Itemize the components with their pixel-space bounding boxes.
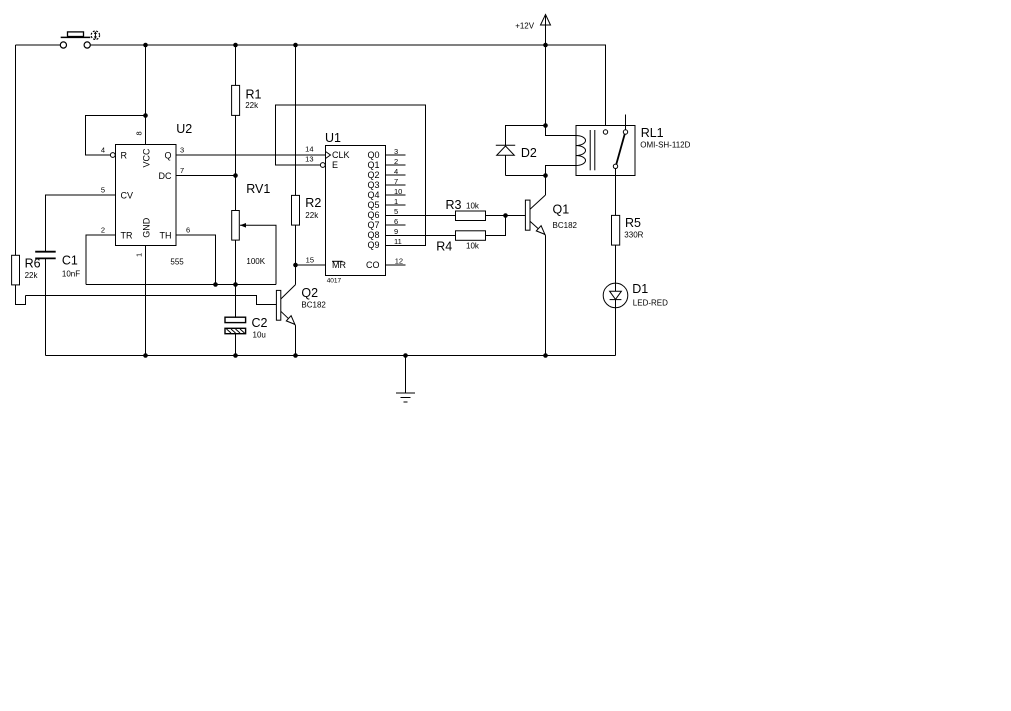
- wire U2 reset loop to VCC node: [86, 116, 146, 156]
- transistor Q1: [525, 176, 577, 356]
- svg-text:22k: 22k: [25, 271, 39, 280]
- svg-text:4: 4: [394, 167, 398, 176]
- svg-text:D1: D1: [632, 282, 648, 296]
- svg-text:Q2: Q2: [367, 170, 379, 180]
- svg-text:6: 6: [394, 217, 398, 226]
- wire relay coil bottom to Q1 collector: [546, 166, 577, 194]
- wire R6 net to Q2 base: [26, 296, 277, 305]
- resistor R2: [292, 195, 322, 225]
- transistor Q2: [276, 265, 326, 356]
- wire RV1 bottom: [235, 240, 237, 284]
- wire VCC vertical: [145, 45, 147, 145]
- wire bottom rail: [46, 355, 616, 357]
- wire R2 top: [295, 45, 297, 195]
- svg-text:RV1: RV1: [246, 182, 270, 196]
- U2 pin names: [121, 148, 172, 240]
- wire R5 to D1: [615, 245, 617, 283]
- potentiometer RV1: [232, 182, 271, 266]
- svg-text:GND: GND: [141, 217, 151, 238]
- svg-text:330R: 330R: [624, 231, 643, 240]
- svg-text:3: 3: [180, 146, 184, 155]
- svg-text:10: 10: [394, 187, 402, 196]
- wire R3 right: [486, 215, 506, 217]
- svg-text:U2: U2: [176, 122, 192, 136]
- svg-text:RL1: RL1: [641, 126, 664, 140]
- resistor R3: [446, 198, 486, 220]
- U2 pin numbers: [101, 131, 190, 257]
- svg-text:R1: R1: [246, 87, 262, 101]
- junction rail x=145.5: [143, 353, 148, 358]
- wire R1 top: [235, 45, 237, 85]
- svg-text:LED-RED: LED-RED: [633, 298, 668, 307]
- svg-text:TR: TR: [121, 230, 133, 240]
- svg-text:7: 7: [394, 177, 398, 186]
- wire C1 top to CV: [46, 195, 116, 251]
- junction rail x=405.5: [403, 353, 408, 358]
- svg-text:Q3: Q3: [367, 180, 379, 190]
- U1 output stubs: [386, 155, 406, 265]
- wire MR to node: [296, 264, 326, 266]
- wire D1 to rail: [615, 308, 617, 356]
- wire Q output to U1 CLK: [176, 154, 326, 156]
- svg-text:Q8: Q8: [367, 230, 379, 240]
- svg-text:TH: TH: [160, 230, 172, 240]
- svg-text:R3: R3: [446, 198, 462, 212]
- svg-text:9: 9: [394, 227, 398, 236]
- svg-text:Q0: Q0: [367, 150, 379, 160]
- svg-text:BC182: BC182: [301, 300, 326, 309]
- svg-text:3: 3: [394, 147, 398, 156]
- junction base node: [503, 213, 508, 218]
- junction TH node: [213, 282, 218, 287]
- wire DC to R1/RV1 node: [176, 175, 236, 177]
- svg-text:VCC: VCC: [141, 148, 151, 168]
- junction top rail at x=545.5: [543, 43, 548, 48]
- svg-text:8: 8: [135, 131, 144, 135]
- svg-text:Q6: Q6: [367, 210, 379, 220]
- 4017 U1 box: [325, 131, 386, 285]
- svg-text:U1: U1: [325, 131, 341, 145]
- svg-text:10k: 10k: [466, 242, 480, 251]
- wire top rail: [90, 45, 606, 130]
- capacitor C2: [225, 316, 268, 340]
- svg-text:11: 11: [394, 237, 402, 246]
- wire R2 bottom to MR node: [295, 225, 297, 265]
- svg-text:Q1: Q1: [553, 203, 570, 217]
- svg-text:Q4: Q4: [367, 190, 379, 200]
- diode D2: [496, 126, 546, 176]
- svg-text:CO: CO: [366, 260, 380, 270]
- U2 reset bubble: [110, 153, 115, 158]
- junction MR node: [293, 263, 298, 268]
- wire R4 right up to base node: [486, 216, 506, 236]
- U1 enable bubble: [320, 163, 325, 168]
- ground: [396, 356, 415, 403]
- wire C2 top: [235, 285, 237, 318]
- wire left vertical rail: [15, 45, 17, 255]
- junction DC node: [233, 173, 238, 178]
- svg-text:D2: D2: [521, 146, 537, 160]
- svg-text:22k: 22k: [245, 101, 259, 110]
- wire GND pin 1 down to rail: [145, 246, 147, 356]
- svg-text:555: 555: [170, 257, 184, 266]
- svg-text:R5: R5: [625, 216, 641, 230]
- junction D2 top: [543, 123, 548, 128]
- wire Q8 to R4: [386, 235, 456, 237]
- junction D2 bottom: [543, 173, 548, 178]
- svg-text:7: 7: [180, 166, 184, 175]
- relay RL1: [576, 115, 691, 176]
- svg-text:13: 13: [305, 155, 313, 164]
- svg-text:E: E: [332, 160, 338, 170]
- junction VCC node: [143, 113, 148, 118]
- wire RV1 wiper: [240, 225, 276, 284]
- junction rail x=545.5: [543, 353, 548, 358]
- wire E enable loop over U1 to Q9: [276, 105, 426, 246]
- resistor R4: [436, 231, 485, 254]
- wire to Q1 base: [506, 215, 526, 217]
- wire R6 bottom step: [16, 285, 26, 305]
- U1 pin numbers: [305, 145, 403, 266]
- svg-text:10u: 10u: [253, 331, 266, 340]
- svg-text:4017: 4017: [327, 278, 342, 285]
- svg-text:100K: 100K: [246, 257, 265, 266]
- junction RV1/C2 node: [233, 282, 238, 287]
- svg-text:22k: 22k: [305, 211, 319, 220]
- svg-text:12: 12: [395, 256, 403, 265]
- junction rail x=235.5: [233, 353, 238, 358]
- svg-text:1: 1: [394, 197, 398, 206]
- svg-text:C2: C2: [252, 316, 268, 330]
- svg-text:Q5: Q5: [367, 200, 379, 210]
- svg-text:Q2: Q2: [301, 286, 318, 300]
- wire Q6 to R3: [386, 215, 456, 217]
- wire top-left from button to left rail: [16, 44, 61, 46]
- svg-text:OMI-SH-112D: OMI-SH-112D: [640, 140, 690, 149]
- U1 clock triangle: [326, 152, 331, 159]
- svg-text:14: 14: [305, 145, 313, 154]
- svg-text:5: 5: [101, 186, 105, 195]
- junction top rail at x=295.5: [293, 43, 298, 48]
- svg-text:10nF: 10nF: [62, 269, 80, 278]
- svg-text:R: R: [121, 150, 128, 160]
- wire TR pin loop: [86, 235, 116, 285]
- svg-text:Q9: Q9: [367, 240, 379, 250]
- svg-text:Q7: Q7: [367, 220, 379, 230]
- svg-text:BC182: BC182: [553, 221, 578, 230]
- resistor R6: [12, 255, 41, 285]
- resistor R5: [612, 215, 644, 245]
- svg-text:10k: 10k: [466, 202, 480, 211]
- svg-text:R4: R4: [436, 239, 452, 253]
- svg-text:2: 2: [101, 226, 105, 235]
- svg-text:5: 5: [394, 207, 398, 216]
- svg-text:6: 6: [186, 226, 190, 235]
- svg-text:Q1: Q1: [367, 160, 379, 170]
- wire timing net horizontal: [86, 284, 276, 286]
- svg-text:15: 15: [306, 256, 314, 265]
- wire C2 bottom: [235, 334, 237, 356]
- svg-text:Q: Q: [164, 150, 171, 160]
- capacitor C1: [35, 252, 80, 279]
- junction top rail at x=145.5: [143, 43, 148, 48]
- svg-text:2: 2: [394, 157, 398, 166]
- op-amp U2 555 box: [116, 122, 193, 267]
- wire R1 to RV1: [235, 115, 237, 210]
- wire relay contact to R5: [615, 169, 617, 216]
- junction rail x=295.5: [293, 353, 298, 358]
- pushbutton SW: [60, 31, 99, 48]
- svg-text:C1: C1: [62, 254, 78, 268]
- LED D1: [603, 282, 668, 308]
- svg-text:4: 4: [101, 146, 105, 155]
- resistor R1: [232, 85, 262, 115]
- wire C1 bottom to ground rail: [45, 259, 47, 356]
- U1 pin names: [332, 150, 380, 270]
- junction top rail at x=235.5: [233, 43, 238, 48]
- wire +12V vertical to relay coil: [546, 45, 577, 136]
- svg-text:CLK: CLK: [332, 150, 350, 160]
- svg-text:DC: DC: [159, 171, 172, 181]
- svg-text:1: 1: [135, 253, 144, 257]
- svg-text:CV: CV: [121, 190, 134, 200]
- power +12V: [515, 15, 550, 46]
- svg-text:+12V: +12V: [515, 21, 535, 30]
- svg-text:R2: R2: [305, 196, 321, 210]
- wire TH pin loop: [176, 235, 216, 285]
